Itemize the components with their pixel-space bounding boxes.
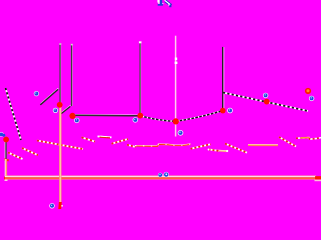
electron e10 [164, 172, 169, 177]
switch lever 1 [40, 88, 58, 105]
salmon vertical red end [58, 202, 62, 209]
resistor b6 rising [112, 139, 129, 144]
junction dot J5 [220, 108, 226, 114]
junction dot J3 [137, 113, 143, 119]
electron e3 [74, 118, 79, 123]
wire W5 vertical [223, 47, 224, 110]
left wire salmon part [5, 159, 6, 178]
resistor b15 [279, 137, 296, 147]
resistor b3 long [37, 141, 83, 150]
junction dot J4 [173, 118, 179, 124]
resistor+battery b12 [208, 149, 229, 153]
bottom wire right red terminal [315, 176, 321, 179]
left wire gray part below top red dot [4, 142, 7, 159]
electron e12 edge [0, 132, 5, 137]
electron e9 [158, 173, 163, 178]
junction dot J1 [57, 102, 63, 108]
wire W4 white vertical [175, 36, 178, 119]
salmon vertical wire center [59, 107, 61, 204]
wire W2 vertical [71, 44, 73, 106]
electron e8 [178, 130, 184, 136]
electron e4 [133, 117, 138, 122]
electron e7 [309, 96, 314, 101]
junction dot J8 [3, 137, 9, 143]
band right wavy b16 [296, 138, 321, 140]
bus striped segment 2 [176, 111, 223, 122]
battery b14 [248, 144, 278, 147]
small red clip mark [4, 158, 9, 161]
striped diagonal long (right) [223, 93, 308, 112]
resistor b5 flat [98, 136, 112, 138]
electron e6 [263, 93, 268, 98]
bus striped segment 1 [140, 116, 175, 122]
junction dot J2 [69, 113, 75, 119]
electron e1 [34, 91, 39, 96]
junction dot J7 highlighted [305, 88, 311, 94]
resistor b11 [191, 144, 211, 149]
striped diagonal A (top-left) [6, 88, 22, 140]
electron e11 [49, 203, 54, 208]
salmon band wire b9-b10 [135, 144, 191, 147]
resistor b8 [127, 145, 136, 147]
electron e2 [53, 108, 58, 113]
resistor b4 [82, 137, 96, 141]
resistor b13 [225, 144, 247, 153]
mouse cursor [165, 0, 172, 7]
bottom salmon wire horizontal [5, 176, 321, 179]
wire W4 white stub below junction [175, 124, 177, 137]
resistor b2 [22, 148, 38, 155]
electron e5 [227, 108, 233, 114]
resistor b1 [8, 153, 23, 160]
wire W1 vertical [59, 43, 61, 104]
wire W3 vertical [139, 41, 142, 115]
bottom wire corner red terminal [4, 177, 10, 180]
glyph block top [157, 0, 163, 6]
switch lever 2 [60, 105, 70, 114]
junction dot J6 [264, 99, 270, 105]
bus wire gray horizontal [75, 114, 141, 115]
